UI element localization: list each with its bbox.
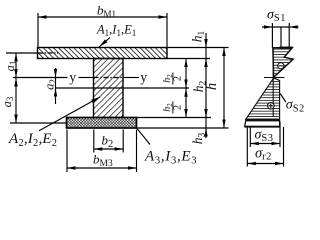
label h2/2 lower bbox=[162, 102, 183, 114]
svg-text:y: y bbox=[140, 70, 147, 85]
dimension bM3 bbox=[66, 130, 68, 173]
plus sign circle bbox=[268, 103, 275, 110]
leader to flange 3 bbox=[137, 129, 150, 145]
svg-text:b2: b2 bbox=[102, 133, 114, 151]
dimension sigma r2 bbox=[246, 128, 248, 167]
label h2/2 upper bbox=[162, 73, 183, 85]
mid-web reference line bbox=[56, 87, 190, 89]
web plate 2 (hatched) bbox=[94, 59, 124, 118]
y-y axis bbox=[13, 77, 68, 79]
svg-text:bM1: bM1 bbox=[97, 3, 116, 20]
dimension chain h1 h2 h3 bbox=[205, 33, 207, 138]
dimension h2/2 chain bbox=[185, 59, 187, 118]
svg-text:A2,I2,E2: A2,I2,E2 bbox=[8, 131, 57, 149]
compression stress block (flange 1 + upper web) bbox=[273, 48, 293, 78]
svg-text:2: 2 bbox=[173, 76, 184, 81]
svg-text:σS2: σS2 bbox=[286, 98, 305, 115]
svg-text:h: h bbox=[204, 83, 220, 90]
dimension h bbox=[223, 48, 225, 129]
svg-text:bM3: bM3 bbox=[93, 152, 113, 170]
dimension b2 bbox=[93, 130, 95, 153]
top flange plate 1 (hatched) bbox=[38, 48, 168, 59]
centroid line of flange 1 bbox=[6, 52, 38, 54]
svg-text:σS1: σS1 bbox=[267, 8, 286, 25]
dimension sigma S3 bbox=[249, 128, 251, 148]
dimension a1 bbox=[15, 53, 17, 123]
svg-text:y: y bbox=[69, 70, 76, 85]
dimension bM1 bbox=[38, 16, 167, 18]
dimension a2 bbox=[55, 68, 57, 104]
flange 3 stress strip bbox=[245, 120, 280, 126]
svg-text:h1: h1 bbox=[190, 31, 207, 43]
svg-text:A3,I3,E3: A3,I3,E3 bbox=[144, 149, 197, 167]
stress diagram zero axis bbox=[272, 48, 274, 118]
minus sign circle bbox=[278, 63, 284, 69]
svg-text:a3: a3 bbox=[0, 96, 15, 107]
svg-text:σr2: σr2 bbox=[255, 146, 272, 163]
svg-text:σS3: σS3 bbox=[255, 128, 274, 145]
tension stress block (lower web) bbox=[246, 78, 280, 120]
neutral axis tick bbox=[264, 77, 285, 79]
svg-text:A1,I1,E1: A1,I1,E1 bbox=[96, 23, 136, 38]
right side extension lines bbox=[167, 47, 229, 49]
svg-text:h3: h3 bbox=[190, 133, 207, 145]
bottom flange plate 3 (cross-hatched) bbox=[67, 118, 137, 129]
svg-text:a1: a1 bbox=[3, 61, 18, 72]
svg-text:2: 2 bbox=[173, 105, 184, 110]
centroid line of flange 3 bbox=[10, 122, 66, 124]
svg-text:a2: a2 bbox=[43, 79, 58, 90]
dimension a3 bbox=[14, 78, 17, 87]
leader to web bbox=[39, 97, 100, 131]
leader to flange 1 bbox=[99, 38, 110, 47]
